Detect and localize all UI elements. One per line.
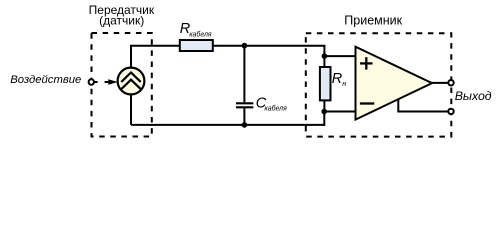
wire: capacitor bottom lead (243, 108, 245, 125)
svg-text:кабеля: кабеля (189, 31, 212, 39)
label: Rн (332, 71, 346, 88)
wire: Rn bottom lead (323, 100, 325, 111)
input arrow (105, 79, 118, 84)
wire: capacitor top lead (243, 45, 245, 102)
svg-text:(датчик): (датчик) (99, 13, 144, 27)
label: Передатчик (датчик) (89, 3, 155, 27)
wire: - input (324, 111, 356, 113)
svg-text:R: R (332, 71, 343, 87)
current source chevron 2 (121, 80, 140, 89)
svg-text:Приемник: Приемник (344, 14, 402, 28)
transmitter dashed box (92, 33, 152, 137)
wire: source top to resistor left (131, 46, 180, 68)
op-amp - sign (360, 102, 374, 104)
receiver dashed box (306, 33, 452, 136)
wire: lower output tap (398, 100, 448, 112)
wire: input stub (94, 81, 97, 83)
wire: resistor right to receiver + junction (213, 46, 325, 56)
wire: rail tap up to - junction (323, 112, 325, 126)
op-amp + sign (360, 57, 372, 69)
current source chevron 1 (121, 73, 140, 82)
output terminal top (448, 80, 453, 85)
wire: output from apex (431, 82, 448, 84)
svg-text:н: н (342, 81, 346, 88)
resistor Rн (320, 67, 331, 100)
current source Q (transducer) (118, 68, 145, 95)
label: Cкабеля (256, 95, 287, 112)
node: junction - input / Rn bottom (321, 109, 327, 115)
resistor Rкабеля (180, 40, 213, 51)
capacitor Cкабеля (236, 103, 253, 107)
node: junction top rail / capacitor (242, 43, 248, 49)
wire: Rn top lead (323, 56, 325, 67)
output terminal bottom (448, 109, 453, 114)
svg-text:Воздействие: Воздействие (10, 74, 81, 86)
node: junction bottom rail / capacitor (242, 122, 248, 128)
op-amp U1 (356, 47, 433, 120)
node: junction + input / Rn top (322, 53, 328, 59)
svg-text:Выход: Выход (455, 89, 492, 103)
wire: + input (324, 55, 356, 57)
svg-text:кабеля: кабеля (264, 104, 287, 112)
input terminal (89, 79, 94, 84)
label: Rкабеля (180, 21, 212, 39)
wire: source bottom lead (130, 94, 132, 125)
wire: bottom rail (131, 124, 324, 126)
